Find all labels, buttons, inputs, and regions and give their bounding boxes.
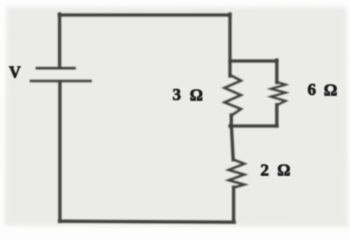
wire node B to R3 bbox=[231, 126, 233, 160]
wire 6-ohm branch vertical top bbox=[275, 60, 278, 83]
wire left vertical (battery to bottom) bbox=[58, 82, 61, 222]
node B branch bottom wire bbox=[230, 124, 277, 127]
node A branch top wire bbox=[230, 59, 277, 62]
wire left vertical (top segment to battery) bbox=[58, 14, 61, 67]
svg-text:Ω: Ω bbox=[190, 85, 203, 104]
resistor R3 2 ohm zigzag bbox=[229, 160, 245, 188]
battery V negative plate bbox=[31, 80, 91, 83]
wire bottom bbox=[60, 221, 235, 222]
resistor R2 6 ohm zigzag bbox=[271, 82, 286, 105]
svg-text:Ω: Ω bbox=[277, 161, 290, 180]
svg-text:3: 3 bbox=[173, 85, 182, 104]
wire R1 to node B bbox=[230, 115, 233, 127]
svg-text:2: 2 bbox=[260, 160, 269, 179]
resistor R1 3 ohm zigzag bbox=[225, 76, 242, 116]
wire R3 to bottom bbox=[232, 187, 235, 222]
svg-text:V: V bbox=[9, 62, 21, 81]
wire 6-ohm branch vertical bottom bbox=[275, 105, 278, 126]
svg-text:6: 6 bbox=[308, 80, 317, 99]
battery V positive plate bbox=[37, 67, 75, 70]
wire top bbox=[59, 13, 230, 16]
wire right vertical (top wire to node A) bbox=[228, 14, 231, 76]
svg-text:Ω: Ω bbox=[324, 81, 338, 100]
